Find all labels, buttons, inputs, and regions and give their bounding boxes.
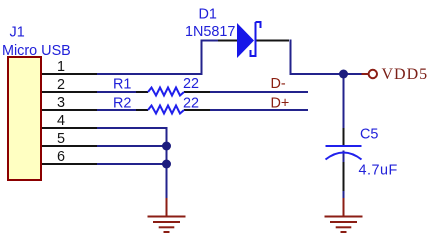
svg-text:22: 22 <box>183 96 199 112</box>
svg-text:3: 3 <box>57 95 65 111</box>
svg-text:D1: D1 <box>199 7 217 23</box>
svg-text:22: 22 <box>183 76 199 92</box>
svg-text:C5: C5 <box>360 127 378 143</box>
svg-text:R2: R2 <box>113 96 131 112</box>
svg-text:1: 1 <box>57 59 65 75</box>
svg-text:5: 5 <box>57 131 65 147</box>
svg-text:J1: J1 <box>10 25 25 41</box>
svg-text:2: 2 <box>57 77 65 93</box>
svg-text:6: 6 <box>57 149 65 165</box>
svg-text:1N5817: 1N5817 <box>185 24 235 40</box>
svg-text:Micro USB: Micro USB <box>2 43 71 59</box>
svg-text:VDD5: VDD5 <box>382 66 429 83</box>
svg-text:R1: R1 <box>113 77 131 93</box>
svg-text:4.7uF: 4.7uF <box>359 163 398 179</box>
svg-text:D+: D+ <box>271 96 290 112</box>
svg-text:D-: D- <box>271 76 286 92</box>
svg-text:4: 4 <box>57 113 65 129</box>
